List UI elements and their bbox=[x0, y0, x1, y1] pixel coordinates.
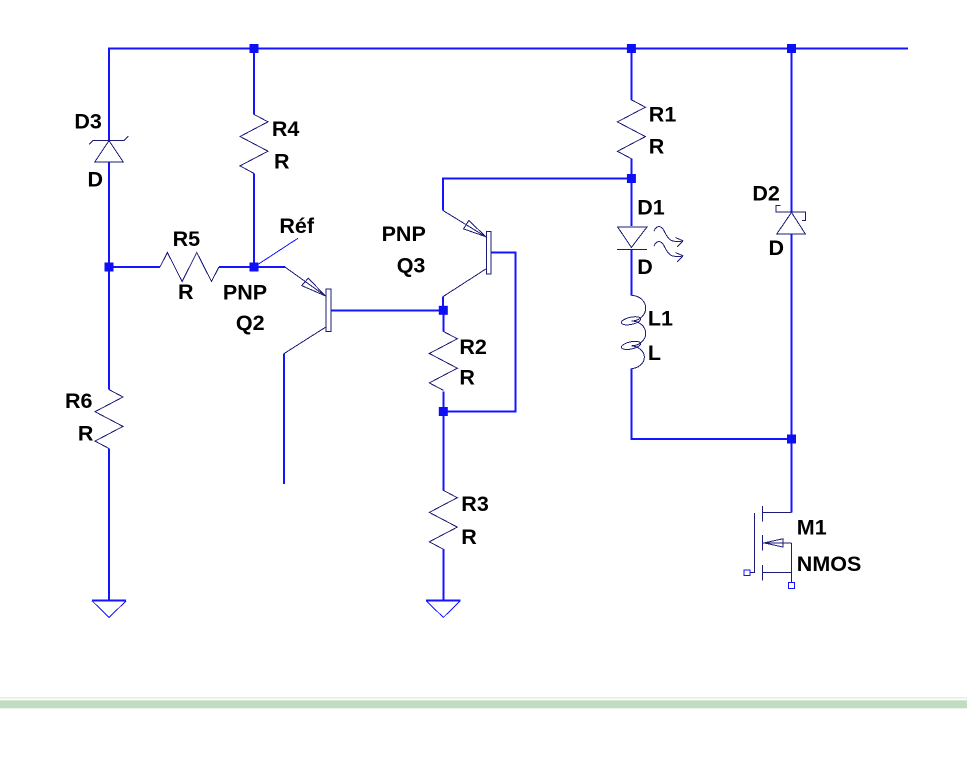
junction node D3/R5 bbox=[105, 263, 114, 272]
wire Q3 emitter bbox=[443, 179, 631, 211]
svg-text:R: R bbox=[78, 422, 94, 446]
wire D2 bottom bbox=[791, 234, 793, 439]
wire M1 drain bbox=[791, 439, 793, 513]
resistor R1 bbox=[617, 100, 676, 159]
wire D3 to R6 bbox=[108, 162, 110, 390]
junction node top D2 bbox=[787, 44, 796, 53]
svg-text:PNP: PNP bbox=[223, 280, 267, 304]
svg-text:D: D bbox=[768, 236, 784, 260]
resistor R6 bbox=[65, 389, 123, 449]
wire R2 bottom lead bbox=[442, 391, 444, 411]
wire R4 top bbox=[253, 49, 255, 115]
svg-text:R: R bbox=[459, 365, 475, 389]
wire R3 top bbox=[442, 412, 444, 491]
transistor Q3 (PNP) bbox=[382, 211, 491, 297]
wire L1 to node bbox=[631, 369, 791, 439]
svg-text:D3: D3 bbox=[74, 110, 102, 134]
wire node to R5 left bbox=[109, 266, 160, 268]
wire R1 bottom bbox=[630, 159, 632, 179]
wire Q2 base to node bbox=[331, 309, 443, 311]
wire R4 bottom bbox=[253, 173, 255, 267]
svg-text:R1: R1 bbox=[649, 103, 677, 127]
svg-text:R4: R4 bbox=[272, 117, 300, 141]
wire R5 right to node bbox=[219, 266, 254, 268]
junction node top R4 bbox=[250, 44, 259, 53]
net label Réf bbox=[254, 214, 315, 267]
wire Q2 emitter stub bbox=[254, 266, 285, 268]
svg-text:L: L bbox=[648, 341, 661, 365]
svg-text:PNP: PNP bbox=[382, 222, 426, 246]
svg-text:Q2: Q2 bbox=[236, 311, 265, 335]
wire R3 to ground bbox=[442, 549, 444, 600]
status bar light line bbox=[0, 697, 967, 699]
svg-text:R: R bbox=[178, 280, 194, 304]
wire Q2 collector bbox=[283, 354, 285, 484]
junction node R1/D1/Q3 bbox=[627, 174, 636, 183]
svg-text:Q3: Q3 bbox=[397, 254, 426, 278]
junction node top R1 bbox=[627, 44, 636, 53]
svg-text:Réf: Réf bbox=[279, 214, 314, 238]
wire D1 to L1 bbox=[630, 250, 632, 296]
svg-text:L1: L1 bbox=[648, 307, 673, 331]
resistor R2 bbox=[429, 331, 487, 390]
wire R6 to ground bbox=[108, 449, 110, 601]
inductor L1 bbox=[621, 295, 673, 368]
svg-text:R: R bbox=[649, 134, 665, 158]
svg-text:D: D bbox=[637, 255, 653, 279]
svg-text:D2: D2 bbox=[752, 181, 780, 205]
svg-text:D1: D1 bbox=[637, 196, 665, 220]
wire node to Q3 base bbox=[443, 253, 515, 412]
wire Q3 collector to node bbox=[442, 297, 444, 311]
resistor R5 bbox=[160, 227, 219, 304]
svg-text:M1: M1 bbox=[797, 516, 827, 540]
junction node R4/R5/Q2 bbox=[250, 263, 259, 272]
svg-text:R3: R3 bbox=[461, 492, 489, 516]
ground R6 bbox=[92, 600, 126, 617]
zener diode D2 bbox=[752, 181, 805, 260]
wire R1 top bbox=[630, 49, 632, 100]
wire R2 top lead bbox=[442, 310, 444, 331]
svg-text:R2: R2 bbox=[459, 335, 487, 359]
resistor R3 bbox=[429, 490, 489, 549]
ground R3 bbox=[426, 600, 460, 617]
junction node L1/D2/M1 bbox=[787, 435, 796, 444]
svg-text:R5: R5 bbox=[173, 227, 201, 251]
LED D1 bbox=[617, 196, 683, 280]
svg-text:R: R bbox=[274, 150, 290, 174]
status bar bbox=[0, 700, 967, 708]
resistor R4 bbox=[240, 114, 299, 173]
wire node to D1 bbox=[630, 179, 632, 227]
svg-text:R6: R6 bbox=[65, 389, 93, 413]
svg-text:NMOS: NMOS bbox=[797, 552, 862, 576]
transistor Q2 (PNP) bbox=[223, 267, 331, 354]
wire top rail bbox=[109, 49, 908, 141]
svg-text:D: D bbox=[87, 167, 103, 191]
junction node Q2 base/R2 bbox=[439, 306, 448, 315]
wire D2 top bbox=[791, 49, 793, 212]
junction node R2/R3 bbox=[439, 407, 448, 416]
svg-text:R: R bbox=[461, 525, 477, 549]
zener diode D3 bbox=[74, 110, 128, 192]
nmos M1 bbox=[744, 506, 861, 589]
